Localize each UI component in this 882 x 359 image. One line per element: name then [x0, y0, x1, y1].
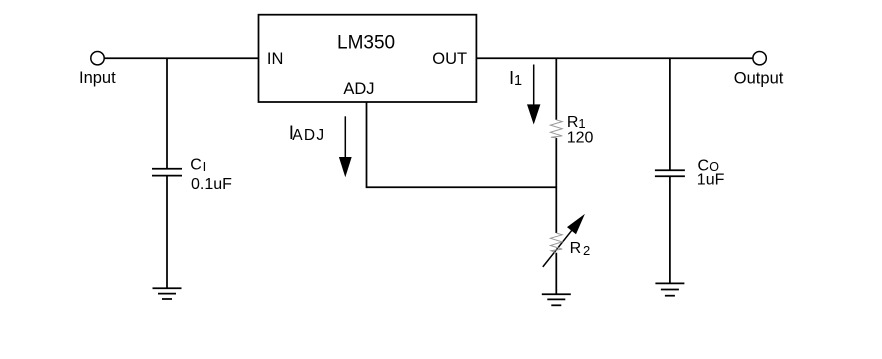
svg-text:ADJ: ADJ: [343, 80, 374, 98]
svg-text:ADJ: ADJ: [292, 127, 325, 144]
svg-text:120: 120: [567, 130, 594, 147]
svg-text:IN: IN: [267, 50, 284, 68]
svg-text:OUT: OUT: [432, 50, 467, 68]
svg-text:1uF: 1uF: [697, 172, 725, 189]
svg-text:C: C: [190, 157, 202, 174]
svg-text:I: I: [203, 159, 207, 174]
svg-text:1: 1: [514, 73, 522, 89]
svg-text:0.1uF: 0.1uF: [191, 176, 232, 193]
svg-text:O: O: [709, 160, 719, 174]
svg-text:R: R: [567, 114, 579, 131]
svg-text:Output: Output: [734, 70, 784, 88]
svg-text:2: 2: [583, 243, 590, 258]
svg-text:Input: Input: [79, 69, 116, 87]
svg-text:LM350: LM350: [337, 33, 395, 54]
svg-text:R: R: [570, 240, 582, 257]
svg-text:1: 1: [578, 116, 585, 131]
